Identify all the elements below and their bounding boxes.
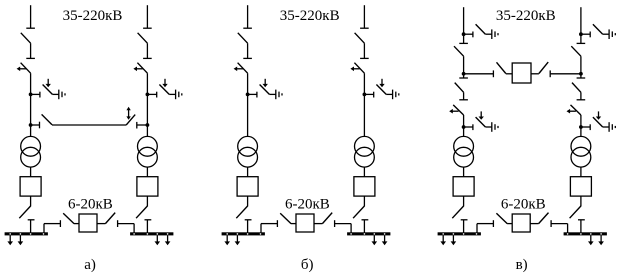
- wire: [463, 74, 465, 78]
- earthing switch QSG6: [581, 24, 603, 37]
- wire: [580, 196, 582, 206]
- wire: [463, 220, 465, 233]
- short-circuiter QN6: [581, 111, 603, 130]
- disconnector QJ-aL (jumper, left): [60, 213, 74, 227]
- feeder arrows on A2: [155, 235, 171, 245]
- circuit breaker QJ-b (jumper box): [296, 214, 314, 232]
- disconnector QS2: [138, 28, 152, 43]
- busbar C1 (6-20kV section): [438, 232, 481, 235]
- diagram label v): [516, 257, 528, 273]
- node: junction of bypass jumper 2: [146, 123, 150, 127]
- circuit breaker Q4 (box): [354, 177, 375, 196]
- wire: [463, 92, 465, 100]
- ground (short-circuiter earth): [603, 122, 616, 132]
- wire: [580, 115, 582, 137]
- value label: 35-220 kV (diagram v): [496, 8, 556, 24]
- wire: [30, 43, 32, 58]
- value label: 35-220 kV (diagram a): [63, 8, 123, 24]
- wire: [530, 223, 538, 225]
- disconnector QS5a: [454, 43, 468, 56]
- svg-text:б): б): [301, 257, 314, 273]
- wire: [146, 73, 148, 136]
- disconnector QS4: [355, 28, 369, 43]
- wire: [463, 56, 465, 74]
- ground (short-circuiter earth): [269, 90, 282, 100]
- separator QR3 (disconnector with trip arrow): [234, 58, 252, 73]
- short-circuiter QN2: [147, 79, 169, 98]
- wire: [146, 220, 148, 233]
- ground (short-circuiter earth): [52, 90, 65, 100]
- busbar C2 (6-20kV section): [564, 232, 607, 235]
- disconnector QS6L (LV side): [570, 206, 585, 220]
- disconnector QST1 (tie, left): [493, 62, 505, 77]
- circuit breaker Q6 (box): [570, 177, 591, 196]
- svg-text:35-220кВ: 35-220кВ: [63, 8, 123, 24]
- short-circuiter QN5: [464, 111, 486, 130]
- wire: LV jumper riser right QJ-b: [335, 224, 351, 233]
- disconnector QJ-bL (jumper, left): [277, 213, 291, 227]
- wire: [30, 196, 32, 206]
- circuit breaker Q5 (box): [453, 177, 474, 196]
- wire: [580, 56, 582, 74]
- svg-text:а): а): [84, 257, 96, 273]
- wire: [247, 43, 249, 58]
- wire: [146, 196, 148, 206]
- wire: [247, 167, 249, 177]
- wire: LV jumper riser left QJ-b: [261, 224, 277, 233]
- wire: incoming HV line 6: [580, 7, 582, 34]
- ground (earthing earth): [603, 29, 616, 39]
- node: junction of earthing switch 6: [579, 32, 583, 36]
- transformer T5: [454, 136, 474, 167]
- wire: LV jumper riser right QJ-a: [118, 224, 134, 233]
- disconnector QS4L (LV side): [353, 206, 368, 220]
- svg-text:35-220кВ: 35-220кВ: [496, 8, 556, 24]
- busbar B2 (6-20kV section): [347, 232, 390, 235]
- busbar B1 (6-20kV section): [222, 232, 265, 235]
- transformer T4: [355, 136, 375, 167]
- wire: [463, 34, 465, 43]
- wire: [97, 223, 105, 225]
- wire: incoming HV line 2: [146, 5, 148, 28]
- disconnector QJ-vL (jumper, left): [493, 213, 507, 227]
- busbar A2 (6-20kV section): [130, 232, 173, 235]
- wire: [30, 73, 32, 136]
- value label: 35-220 kV (diagram b): [280, 8, 340, 24]
- wire: LV jumper riser left QJ-v: [477, 224, 493, 233]
- circuit breaker Q2 (box): [137, 177, 158, 196]
- wire: [146, 167, 148, 177]
- wire: [30, 167, 32, 177]
- wire: incoming HV line 1: [30, 5, 32, 28]
- wire: [463, 196, 465, 206]
- svg-text:35-220кВ: 35-220кВ: [280, 8, 340, 24]
- value label: 6-20 kV (diagram b): [285, 197, 330, 213]
- node: junction of short-circuiter 5: [462, 125, 466, 129]
- circuit breaker QT (tie box): [512, 63, 531, 83]
- transformer T1: [21, 136, 41, 167]
- wire: incoming HV line 4: [363, 5, 365, 28]
- feeder arrows on A1: [7, 235, 23, 245]
- separator QR1 (disconnector with trip arrow): [17, 58, 35, 73]
- wire: [247, 220, 249, 233]
- wire: tie bridge left section: [464, 73, 493, 75]
- disconnector QST2 (tie, right): [539, 62, 550, 77]
- wire: [580, 92, 582, 100]
- ground (short-circuiter earth): [485, 122, 498, 132]
- wire: bypass jumper middle section: [52, 124, 126, 126]
- disconnector QS3: [238, 28, 252, 43]
- wire: incoming HV line 3: [247, 5, 249, 28]
- wire: [531, 73, 539, 75]
- disconnector QS6a: [571, 43, 585, 56]
- circuit breaker Q3 (box): [237, 177, 258, 196]
- svg-text:6-20кВ: 6-20кВ: [501, 197, 546, 213]
- wire: bypass jumper left section: [31, 124, 40, 126]
- node: junction of tie bridge 6: [579, 72, 583, 76]
- double-headed actuate arrow on bypass disconnector: [126, 107, 130, 120]
- separator QR4 (disconnector with trip arrow): [350, 58, 368, 73]
- wire: [507, 223, 512, 225]
- value label: 6-20 kV (diagram a): [68, 197, 113, 213]
- node: junction of short-circuiter 1: [29, 93, 33, 97]
- svg-text:в): в): [516, 257, 528, 273]
- ground (earthing earth): [485, 29, 498, 39]
- wire: [314, 223, 322, 225]
- node: junction of earthing switch 5: [462, 32, 466, 36]
- disconnector QS1L (LV side): [19, 206, 34, 220]
- wire: [247, 196, 249, 206]
- wire: incoming HV line 5: [463, 7, 465, 34]
- wire: [580, 74, 582, 78]
- circuit breaker QJ-v (jumper box): [512, 214, 530, 232]
- wire: [580, 167, 582, 177]
- disconnector QJ-aR (jumper, right): [105, 213, 117, 227]
- node: junction of short-circuiter 3: [246, 93, 250, 97]
- wire: [363, 196, 365, 206]
- transformer T6: [571, 136, 591, 167]
- node: junction of bypass jumper 1: [29, 123, 33, 127]
- disconnector QSJ2 (bypass jumper right): [126, 115, 137, 129]
- node: junction of short-circuiter 4: [363, 93, 367, 97]
- wire: [363, 73, 365, 136]
- wire: LV jumper riser left QJ-a: [44, 224, 60, 233]
- wire: [291, 223, 296, 225]
- wire: [363, 220, 365, 233]
- wire: [363, 167, 365, 177]
- circuit breaker QJ-a (jumper box): [79, 214, 97, 232]
- diagram label b): [301, 257, 314, 273]
- disconnector QS5b: [455, 78, 468, 92]
- wire: bypass jumper right section: [137, 124, 148, 126]
- value label: 6-20 kV (diagram v): [501, 197, 546, 213]
- disconnector QS6b: [572, 78, 585, 92]
- diagram label a): [84, 257, 96, 273]
- short-circuiter QN4: [364, 79, 386, 98]
- feeder arrows on C1: [440, 235, 456, 245]
- transformer T3: [238, 136, 258, 167]
- circuit breaker Q1 (box): [20, 177, 41, 196]
- svg-text:6-20кВ: 6-20кВ: [68, 197, 113, 213]
- feeder arrows on C2: [588, 235, 604, 245]
- separator QR6 (disconnector with trip arrow): [567, 100, 586, 115]
- wire: LV jumper riser right QJ-v: [552, 224, 568, 233]
- ground (short-circuiter earth): [169, 90, 182, 100]
- disconnector QS1: [21, 28, 35, 43]
- separator QR2 (disconnector with trip arrow): [133, 58, 151, 73]
- separator QR5 (disconnector with trip arrow): [449, 100, 468, 115]
- wire: [74, 223, 79, 225]
- wire: [463, 167, 465, 177]
- disconnector QJ-vR (jumper, right): [539, 213, 552, 227]
- disconnector QS5L (LV side): [452, 206, 467, 220]
- wire: [463, 115, 465, 137]
- ground (short-circuiter earth): [386, 90, 399, 100]
- feeder arrows on B2: [372, 235, 388, 245]
- wire: [506, 73, 512, 75]
- transformer T2: [138, 136, 158, 167]
- svg-text:6-20кВ: 6-20кВ: [285, 197, 330, 213]
- wire: [146, 43, 148, 58]
- disconnector QJ-bR (jumper, right): [322, 213, 334, 227]
- node: junction of tie bridge 5: [462, 72, 466, 76]
- wire: [363, 43, 365, 58]
- wire: [30, 220, 32, 233]
- wire: [580, 34, 582, 43]
- wire: tie bridge right section: [551, 73, 581, 75]
- feeder arrows on B1: [224, 235, 240, 245]
- wire: [580, 220, 582, 233]
- busbar A1 (6-20kV section): [5, 232, 48, 235]
- disconnector QS2L (LV side): [136, 206, 151, 220]
- wire: [247, 73, 249, 136]
- disconnector QS3L (LV side): [236, 206, 251, 220]
- disconnector QSJ1 (bypass jumper left): [40, 114, 53, 128]
- node: junction of short-circuiter 2: [146, 93, 150, 97]
- earthing switch QSG5: [464, 24, 486, 37]
- short-circuiter QN1: [31, 79, 53, 98]
- short-circuiter QN3: [248, 79, 270, 98]
- node: junction of short-circuiter 6: [579, 125, 583, 129]
